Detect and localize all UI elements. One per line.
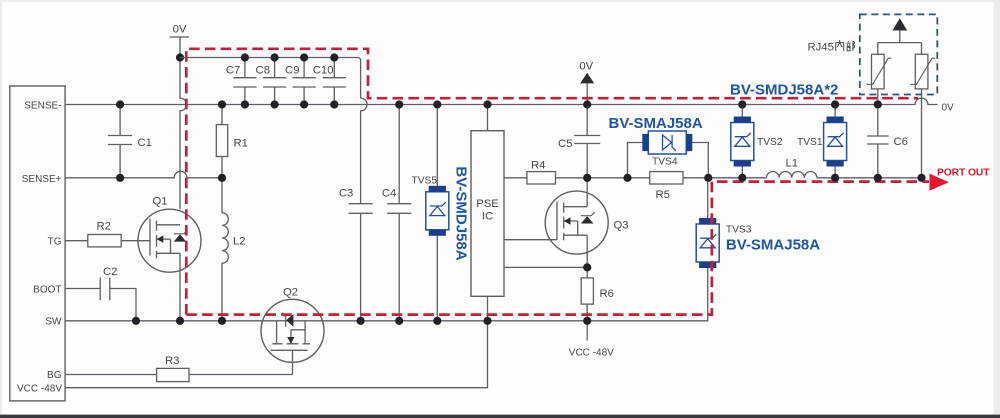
svg-text:C4: C4 — [382, 188, 396, 200]
svg-text:0V: 0V — [173, 24, 187, 36]
svg-text:0V: 0V — [579, 61, 593, 73]
power arrow (RJ45 top) — [892, 18, 907, 42]
svg-text:BV-SMAJ58A: BV-SMAJ58A — [609, 115, 703, 132]
svg-text:C8: C8 — [256, 64, 270, 76]
node C10 / 0V rail — [330, 100, 338, 108]
node C10 top — [330, 53, 338, 61]
RJ45 internal box (blue dashed) — [860, 14, 938, 94]
TVS diode TVS4 with parallel wiring — [628, 131, 709, 178]
TVS diode TVS5 — [412, 105, 449, 321]
svg-text:Q1: Q1 — [153, 195, 168, 207]
node C4 / SW bus — [395, 317, 403, 325]
thermistor RT2 (right) — [910, 43, 935, 178]
svg-text:C2: C2 — [103, 266, 117, 278]
resistor R1 — [216, 105, 248, 178]
node C1 / SENSE- rail — [116, 100, 124, 108]
svg-text:SENSE-: SENSE- — [24, 101, 61, 112]
node C9 / 0V rail — [300, 100, 308, 108]
TVS diode TVS3 — [696, 218, 752, 268]
node RJ45 / port line — [917, 174, 925, 182]
node TVS5 / SW bus — [433, 317, 441, 325]
svg-text:BV-SMDJ58A*2: BV-SMDJ58A*2 — [730, 82, 838, 99]
wire: PSE IC to Q3 gate — [504, 239, 557, 241]
svg-text:TVS5: TVS5 — [412, 175, 438, 186]
node C5 / Q3 drain / R4 line — [583, 174, 591, 182]
node: 0V / top capacitor bus junction — [176, 53, 184, 61]
wire: Q3 source down / PSE sense wire — [504, 235, 587, 267]
svg-text:BV-SMDJ58A: BV-SMDJ58A — [453, 166, 470, 260]
capacitor C9 — [285, 58, 316, 105]
wire: PSE IC bottom pin to SW bus — [487, 296, 489, 321]
capacitor C1 — [108, 105, 152, 178]
red dashed protection boundary (left box) — [186, 49, 918, 315]
wire: Q2 gate stem to R3 line — [292, 350, 294, 374]
wire: SW bus — [65, 268, 708, 321]
svg-text:IC: IC — [482, 211, 493, 223]
wire: output line from PSE through R4/R5 — [504, 177, 767, 179]
svg-text:TVS1: TVS1 — [797, 137, 823, 148]
svg-text:R1: R1 — [234, 138, 248, 150]
red arrow PORT OUT — [930, 174, 949, 191]
node L2 / SW bus — [218, 317, 226, 325]
power symbol VCC-48V (below R6) — [569, 321, 614, 359]
svg-text:C7: C7 — [226, 64, 240, 76]
wire: RJ45 T-bar — [878, 42, 922, 44]
wire: SENSE+ line (hops Q1 drain vertical) — [65, 171, 222, 177]
wire: 0V stem down to Q1 drain (hops SENSE- rail) — [180, 37, 186, 209]
TVS diode TVS2 — [731, 105, 783, 178]
svg-text:C1: C1 — [138, 137, 152, 149]
resistor R5 — [650, 172, 683, 202]
svg-text:R4: R4 — [531, 159, 545, 171]
node TVS5 / 0V rail — [433, 100, 441, 108]
node C9 top — [300, 53, 308, 61]
transistor Q3 (MOSFET) — [545, 191, 608, 254]
node C6 / RJ45 / 0V rail — [874, 100, 882, 108]
node C6 / port line — [874, 174, 882, 182]
capacitor C6 — [867, 105, 908, 178]
svg-text:PORT OUT: PORT OUT — [937, 168, 990, 179]
svg-text:C9: C9 — [285, 64, 299, 76]
node TVS1 / 0V rail — [831, 100, 839, 108]
node C3 / SW bus — [357, 317, 365, 325]
node R1 / SENSE- rail — [218, 100, 226, 108]
svg-text:C3: C3 — [339, 188, 353, 200]
svg-text:BV-SMAJ58A: BV-SMAJ58A — [726, 237, 820, 254]
capacitor C5 — [558, 105, 600, 178]
capacitor C3 — [339, 188, 373, 321]
inductor L1 — [767, 157, 817, 177]
svg-text:Q2: Q2 — [283, 286, 298, 298]
svg-text:R2: R2 — [97, 220, 111, 232]
inductor L2 — [222, 178, 246, 321]
node TVS1 / port line — [831, 174, 839, 182]
node TVS4 right / TVS3 / port line — [704, 174, 712, 182]
svg-text:TVS3: TVS3 — [726, 224, 752, 235]
node R1 / L2 / SENSE+ — [218, 174, 226, 182]
wire: Q1 source to SW bus — [179, 253, 181, 320]
svg-text:BG: BG — [47, 370, 62, 381]
svg-text:PSE: PSE — [476, 198, 499, 210]
resistor R4 — [527, 159, 556, 184]
capacitor C10 — [313, 58, 346, 105]
power symbol 0V (top left) — [170, 24, 189, 38]
node C8 / 0V rail — [271, 100, 279, 108]
svg-text:C10: C10 — [313, 64, 334, 76]
svg-text:C5: C5 — [558, 138, 572, 150]
op-amp U1 PSE IC box — [471, 131, 504, 297]
svg-text:TG: TG — [48, 237, 62, 248]
wire: 0V / SENSE- rail (hops RJ45 right branch) — [65, 98, 937, 104]
svg-text:SENSE+: SENSE+ — [22, 174, 62, 185]
wire: top capacitor bus (0V to C3 top) — [180, 58, 361, 99]
svg-text:Q3: Q3 — [614, 219, 629, 231]
power symbol 0V (above C5) — [579, 61, 594, 105]
svg-text:0V: 0V — [942, 103, 955, 114]
red dashed protection boundary (bottom and port out) — [186, 182, 929, 315]
wire: Q3 drain to output line — [586, 178, 588, 207]
wire: TVS3 top stem from port line — [707, 178, 709, 218]
wire: port line L1 to RJ45 — [817, 177, 922, 179]
resistor R2 — [65, 220, 149, 247]
label RJ45内部 — [808, 40, 855, 54]
svg-text:C6: C6 — [894, 136, 908, 148]
node TVS2 / 0V rail — [738, 100, 746, 108]
node PSE IC / 0V rail — [483, 100, 491, 108]
svg-text:BOOT: BOOT — [33, 284, 61, 295]
svg-text:TVS2: TVS2 — [757, 137, 783, 148]
resistor R3 — [65, 355, 292, 382]
svg-text:RJ45: RJ45 — [808, 42, 834, 54]
wire: C3 vertical hop over 0V rail — [361, 98, 367, 204]
node PSE IC / VCC rail / SW bus — [483, 317, 491, 325]
svg-text:VCC -48V: VCC -48V — [17, 384, 62, 395]
svg-text:R5: R5 — [656, 189, 670, 201]
svg-text:SW: SW — [45, 317, 62, 328]
transistor Q1 (MOSFET) — [138, 209, 201, 272]
svg-text:L2: L2 — [233, 235, 246, 247]
node C7 / 0V rail — [241, 100, 249, 108]
capacitor C4 — [382, 105, 411, 321]
capacitor C2 — [65, 266, 136, 321]
node C2 / SW bus — [132, 317, 140, 325]
capacitor C7 — [226, 58, 257, 105]
node C5 / 0V rail — [583, 100, 591, 108]
wire: VCC-48V rail — [65, 321, 487, 388]
node Q1 source / SW bus — [176, 317, 184, 325]
svg-text:R3: R3 — [165, 355, 179, 367]
connector J1 (controller header box) — [10, 86, 65, 401]
svg-text:TVS4: TVS4 — [652, 157, 678, 168]
node R6 / VCC-48V / SW bus — [583, 317, 591, 325]
TVS diode TVS1 — [797, 105, 847, 178]
node C4 / 0V rail — [395, 100, 403, 108]
svg-text:R6: R6 — [600, 288, 614, 300]
svg-text:VCC -48V: VCC -48V — [569, 347, 614, 358]
resistor R6 — [581, 267, 614, 320]
wire: PSE IC top pin to 0V rail — [487, 105, 489, 131]
thermistor RT1 (left) — [867, 43, 892, 105]
svg-text:L1: L1 — [786, 157, 799, 169]
node C8 top — [271, 53, 279, 61]
node TVS4 left / R5 line — [623, 174, 631, 182]
node TVS2 / port line — [738, 174, 746, 182]
node Q3 source / R6 / PSE sense — [583, 263, 591, 271]
node C1 / SENSE+ — [116, 174, 124, 182]
node C7 top — [241, 53, 249, 61]
transistor Q2 (MOSFET, rotated) — [261, 299, 324, 362]
capacitor C8 — [256, 58, 287, 105]
